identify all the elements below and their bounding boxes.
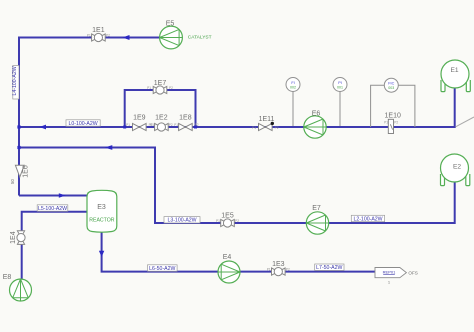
- valve 1E2 (ball valve, bypass group): [150, 115, 173, 132]
- svg-text:REP01: REP01: [383, 270, 396, 275]
- arrow: flow left on y=147.5 line at x=110: [105, 145, 113, 150]
- svg-text:P1: P1: [147, 86, 151, 90]
- svg-text:E5: E5: [166, 20, 175, 27]
- svg-text:P1: P1: [384, 121, 388, 125]
- svg-text:P1: P1: [150, 123, 154, 127]
- wire: E2 feed line y=147.5 down x=155 then y=223 to E2 riser: [19, 148, 455, 224]
- svg-text:1E3: 1E3: [272, 261, 285, 268]
- instrument bubble PI 001: [333, 78, 347, 92]
- valve 1E7 (ball valve on bypass): [147, 80, 173, 94]
- reducer 1E6: [10, 165, 30, 184]
- arrow: flow right into reactor at x=62: [59, 193, 66, 198]
- svg-text:P1: P1: [216, 219, 220, 223]
- wire: gray diagonal at E1 riser base: [456, 117, 474, 127]
- valve 1E9 (gate valve, bypass group): [126, 115, 153, 131]
- arrow: flow down on reactor outlet at y=253: [99, 251, 104, 257]
- label: line number L4-100-A2W (rotated): [12, 66, 19, 100]
- svg-text:CATALYST: CATALYST: [188, 34, 212, 40]
- off-page connector to OFS: [375, 268, 418, 285]
- svg-text:L0-100-A2W: L0-100-A2W: [69, 121, 98, 127]
- svg-text:1: 1: [388, 280, 391, 285]
- valve 1E3 (ball valve): [267, 261, 290, 276]
- label: line number L5-100-A2W: [37, 205, 68, 212]
- tank E1 (sphere with legs): [441, 60, 470, 92]
- wire: bypass loop around 1E2: [125, 90, 196, 127]
- wire: recycle line y=127 with riser to E1: [19, 88, 455, 127]
- valve 1E11 (gate valve): [252, 116, 279, 131]
- svg-text:P2: P2: [275, 126, 279, 130]
- node: junction at (19,127): [17, 125, 20, 128]
- flow meter 1E10: [384, 113, 401, 134]
- label: line number L2-100-A2W: [351, 215, 384, 222]
- instrument signal loop for FIC 003: [371, 85, 415, 127]
- svg-text:E3: E3: [97, 204, 106, 211]
- svg-text:1E2: 1E2: [155, 115, 168, 122]
- svg-text:L2-100-A2W: L2-100-A2W: [353, 216, 382, 222]
- tank E2 (sphere with legs): [441, 154, 470, 186]
- instrument bubble FIC 003: [384, 78, 398, 92]
- svg-text:L6-50-A2W: L6-50-A2W: [149, 266, 175, 272]
- svg-text:OFS: OFS: [408, 270, 417, 275]
- pump E4: [218, 254, 240, 283]
- valve 1E4 (vertical ball valve): [10, 231, 25, 245]
- svg-text:P2: P2: [235, 219, 239, 223]
- svg-text:P2: P2: [106, 34, 110, 38]
- svg-text:50: 50: [10, 179, 15, 184]
- svg-text:P1: P1: [252, 126, 256, 130]
- wire: reactor feed y=195.5: [19, 195, 87, 197]
- valve 1E1 (ball valve): [87, 27, 110, 42]
- wire: E8/1E4 feed line L5: [22, 212, 87, 279]
- svg-text:L4-100-A2W: L4-100-A2W: [12, 66, 18, 95]
- svg-text:1E4: 1E4: [10, 231, 17, 244]
- svg-text:L3-100-A2W: L3-100-A2W: [167, 218, 196, 224]
- wire: reactor outlet to OFS connector: [102, 232, 375, 272]
- svg-text:1E1: 1E1: [92, 27, 105, 34]
- instrument bubble FI 002: [286, 78, 300, 92]
- svg-text:1E7: 1E7: [154, 80, 167, 87]
- text: CATALYST: [188, 34, 212, 40]
- wire: main vertical header x=19: [18, 37, 20, 196]
- svg-text:1E10: 1E10: [385, 113, 401, 120]
- svg-text:1E5: 1E5: [221, 212, 234, 219]
- svg-text:P1: P1: [267, 268, 271, 272]
- svg-text:E8: E8: [3, 274, 12, 281]
- node: junction at (19,147.5): [17, 146, 20, 149]
- node: bypass tee left (124.7,127): [123, 126, 126, 129]
- svg-text:1E9: 1E9: [133, 115, 146, 122]
- valve 1E5 (ball valve): [216, 212, 239, 227]
- arrow: flow left on top line at x=126: [123, 35, 130, 40]
- svg-text:E2: E2: [453, 163, 461, 170]
- svg-text:REACTOR: REACTOR: [89, 218, 115, 224]
- svg-text:1E11: 1E11: [259, 116, 275, 123]
- svg-text:1E8: 1E8: [179, 115, 192, 122]
- svg-text:P2: P2: [394, 121, 398, 125]
- svg-text:FI: FI: [291, 81, 294, 85]
- svg-text:002: 002: [290, 86, 296, 90]
- svg-text:P1: P1: [174, 123, 178, 127]
- svg-text:E4: E4: [223, 254, 232, 261]
- label: line number L7-50-A2W: [315, 264, 344, 271]
- svg-text:P2: P2: [286, 268, 290, 272]
- svg-text:E1: E1: [450, 67, 458, 74]
- svg-text:P1: P1: [126, 123, 130, 127]
- svg-text:P2: P2: [195, 123, 199, 127]
- svg-text:P2: P2: [169, 86, 173, 90]
- instrument stem PI001: [339, 92, 341, 127]
- label: line number L6-50-A2W: [148, 265, 178, 272]
- instrument stem FI002: [292, 92, 294, 127]
- svg-text:001: 001: [337, 86, 343, 90]
- svg-text:003: 003: [388, 86, 394, 90]
- arrow: flow left on y=127 line at x=42.5: [39, 125, 46, 130]
- svg-text:P2: P2: [169, 123, 173, 127]
- reactor E3 vessel: [87, 190, 117, 232]
- svg-text:L7-50-A2W: L7-50-A2W: [316, 265, 342, 271]
- svg-text:FIC: FIC: [388, 82, 394, 86]
- pump E6: [304, 111, 326, 139]
- wire: top catalyst line L4 horizontal: [19, 37, 160, 39]
- label: line number L0-100-A2W: [66, 120, 100, 127]
- svg-text:L5-100-A2W: L5-100-A2W: [38, 206, 67, 212]
- pump E8 (vertical): [3, 274, 32, 301]
- svg-text:1E6: 1E6: [23, 165, 30, 178]
- node: bypass tee right (195.5,127): [194, 126, 197, 129]
- svg-text:E7: E7: [312, 205, 321, 212]
- label: line number L3-100-A2W: [164, 217, 200, 224]
- svg-text:P1: P1: [87, 34, 91, 38]
- valve 1E8 (gate valve, bypass group): [174, 115, 199, 131]
- svg-text:PI: PI: [338, 81, 342, 85]
- pump E5 (catalyst pump): [160, 20, 183, 49]
- svg-text:E6: E6: [312, 111, 321, 118]
- pump E7: [306, 205, 328, 234]
